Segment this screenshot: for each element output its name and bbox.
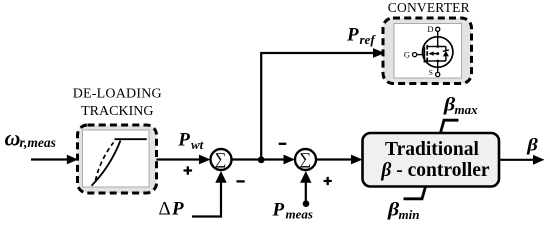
svg-text:∑: ∑	[215, 149, 227, 168]
svg-text:P: P	[272, 199, 285, 220]
label P_meas	[272, 199, 313, 221]
transistor channel segments	[426, 45, 428, 62]
svg-text:wt: wt	[191, 137, 204, 152]
label CONVERTER title	[388, 0, 470, 15]
transistor MOSFET body circle	[423, 37, 453, 67]
transistor gate bar	[423, 47, 425, 63]
wire summer 1 to summer 2	[232, 155, 296, 165]
svg-text:Traditional: Traditional	[385, 139, 479, 160]
label beta output	[526, 135, 539, 155]
label beta_min	[387, 199, 420, 222]
label plus sign at summer 2 bottom input	[324, 177, 332, 185]
block DE-LOADING TRACKING title	[73, 87, 162, 120]
svg-text:TRACKING: TRACKING	[81, 104, 153, 119]
pin G label	[404, 50, 410, 60]
wire beta_min limit tick	[404, 187, 426, 199]
transistor body arrow stub	[428, 51, 439, 55]
label P_wt	[177, 130, 203, 153]
svg-text:r,meas: r,meas	[20, 135, 56, 150]
pin G terminal	[413, 53, 424, 57]
svg-text:P: P	[346, 24, 359, 45]
summer 1 (sigma junction)	[211, 149, 232, 170]
summer 2 (sigma junction)	[295, 149, 316, 170]
label P_ref	[346, 24, 376, 47]
svg-text:β: β	[526, 135, 539, 155]
wire P_ref branch up to converter	[261, 48, 384, 159]
svg-text:Δ: Δ	[159, 199, 171, 220]
pin D label	[427, 24, 433, 34]
label delta P	[159, 199, 185, 220]
pin S label	[429, 68, 433, 77]
svg-text:G: G	[404, 50, 410, 60]
curve de-loaded power tracking (solid)	[92, 139, 147, 186]
svg-text:P: P	[171, 199, 184, 220]
label minus sign at summer 1 bottom input	[237, 180, 245, 182]
svg-text:DE-LOADING: DE-LOADING	[73, 87, 162, 102]
wire summer 2 to controller	[316, 155, 363, 165]
wire input arrow into de-loading block	[31, 155, 78, 165]
block de-loading tracking dashed box	[78, 125, 157, 193]
block converter dashed box	[383, 18, 472, 84]
label plus sign at summer 1 input	[184, 166, 193, 175]
wire output beta arrow	[499, 155, 545, 165]
wire P_meas into summer 2	[300, 171, 311, 207]
pin D terminal	[436, 27, 440, 46]
svg-text:CONVERTER: CONVERTER	[388, 0, 470, 15]
svg-text:min: min	[399, 207, 420, 222]
svg-text:ω: ω	[5, 126, 21, 151]
svg-text:max: max	[455, 102, 479, 117]
svg-text:D: D	[427, 24, 433, 34]
diode body diode branch	[436, 45, 449, 62]
label omega_r,meas input signal	[5, 126, 56, 151]
svg-text:β - controller: β - controller	[380, 160, 490, 181]
wire beta_max limit tick	[441, 120, 459, 133]
wire P_wt from block to summer 1	[157, 155, 211, 165]
svg-text:meas: meas	[286, 207, 313, 222]
svg-text:P: P	[177, 130, 190, 151]
label beta_max	[443, 94, 478, 117]
pin S terminal	[436, 61, 440, 77]
svg-text:∑: ∑	[299, 149, 311, 168]
node junction dot on wire	[258, 156, 265, 163]
block Traditional beta-controller	[363, 133, 500, 187]
label minus sign at summer 2 left input	[279, 143, 287, 145]
curve MPPT reference (dashed)	[96, 143, 114, 181]
transistor drain stub	[427, 46, 438, 48]
svg-text:S: S	[429, 68, 433, 77]
wire delta P into summer 1	[192, 171, 227, 217]
svg-text:ref: ref	[360, 32, 377, 47]
transistor source stub	[427, 60, 438, 62]
